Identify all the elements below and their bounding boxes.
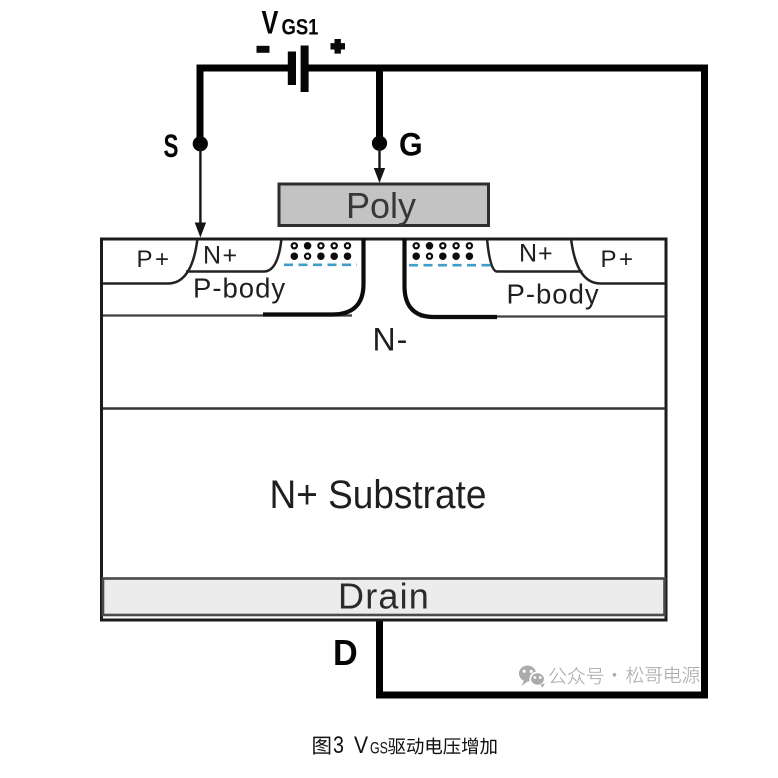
svg-text:N+: N+ [519,240,554,268]
svg-text:GS1: GS1 [282,16,319,40]
svg-text:N+: N+ [203,242,239,270]
svg-text:D: D [333,633,358,673]
svg-text:GS: GS [370,740,388,758]
svg-text:3: 3 [333,731,344,758]
svg-text:Poly: Poly [346,185,416,226]
svg-text:N-: N- [373,322,409,358]
svg-text:P-body: P-body [193,273,286,304]
svg-text:S: S [164,128,179,164]
svg-text:G: G [399,127,423,163]
svg-text:V: V [354,732,368,759]
svg-text:P+: P+ [601,246,636,273]
svg-text:P+: P+ [137,246,172,273]
svg-text:N+ Substrate: N+ Substrate [270,473,487,518]
svg-text:P-body: P-body [507,279,600,310]
svg-text:V: V [262,6,280,42]
svg-text:Drain: Drain [338,576,430,617]
